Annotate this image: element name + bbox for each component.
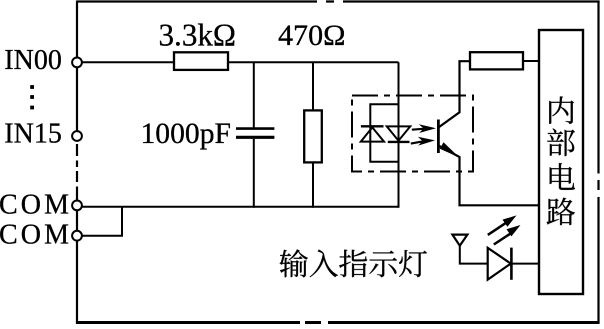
svg-text:470Ω: 470Ω [278,19,346,52]
svg-text:IN15: IN15 [4,119,62,150]
svg-text:COM: COM [0,189,69,220]
svg-text:COM: COM [0,219,69,250]
svg-text:1000pF: 1000pF [141,117,232,150]
svg-text:3.3kΩ: 3.3kΩ [159,17,237,53]
svg-text:IN00: IN00 [4,45,62,76]
